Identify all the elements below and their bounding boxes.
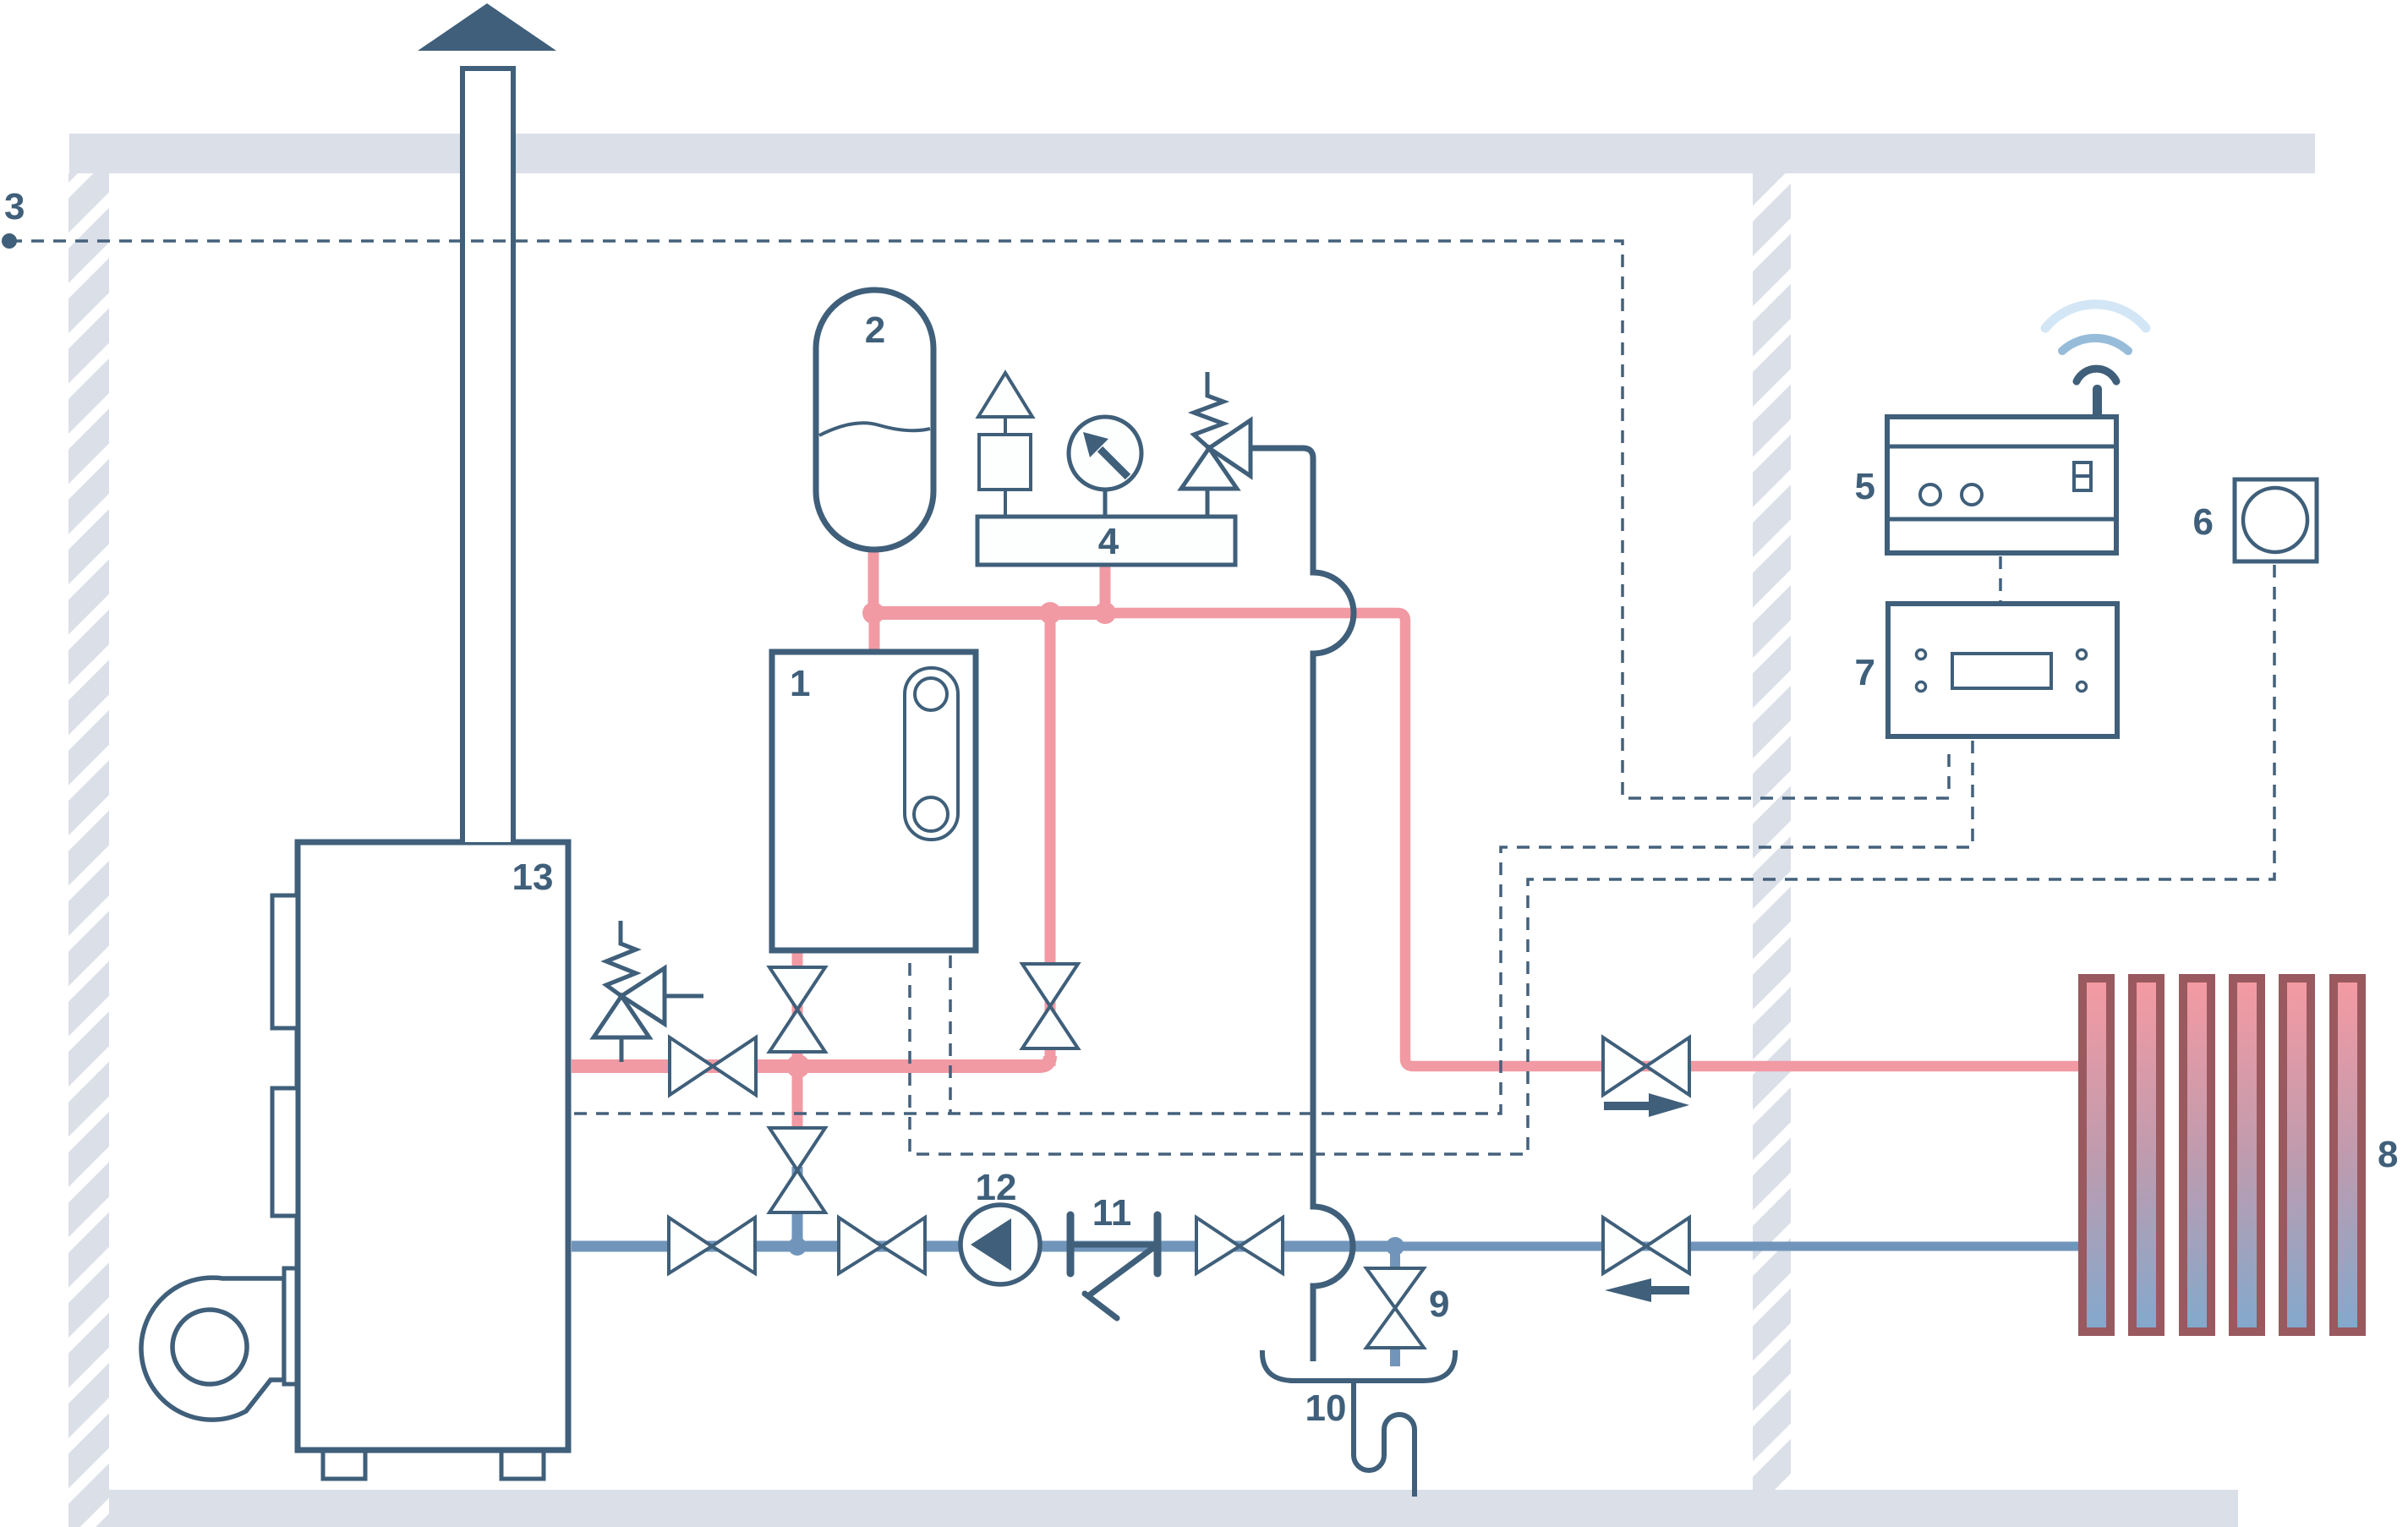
pipe: bypass riser x1242 [1045, 613, 1056, 1066]
wifi antenna [2093, 385, 2102, 419]
svg-text:1: 1 [790, 663, 810, 704]
partition wall [1753, 173, 1791, 1490]
ceiling [69, 134, 2315, 173]
svg-text:9: 9 [1429, 1283, 1449, 1325]
node: junction vessel [862, 602, 884, 624]
pipe: boiler1 bottom drop [792, 952, 803, 1066]
floor [109, 1490, 2238, 1527]
outdoor sensor 3 [2, 233, 17, 249]
svg-text:13: 13 [512, 857, 554, 898]
pipe: boiler1 top feed [869, 613, 880, 658]
pipe: boiler13 return run [572, 1241, 1397, 1252]
expansion vessel 2 [816, 290, 933, 550]
valve: radiator return [1603, 1218, 1689, 1273]
node: junction manifold [1094, 602, 1116, 624]
thermostat 7 [1888, 604, 2117, 736]
svg-text:6: 6 [2193, 501, 2214, 543]
controller 5 [1887, 417, 2116, 553]
overflow pipe from safety valve to funnel [1251, 448, 1354, 1361]
valve: return 2 [839, 1218, 925, 1273]
svg-text:10: 10 [1305, 1387, 1347, 1429]
svg-text:11: 11 [1092, 1192, 1132, 1234]
funnel 10 [1262, 1350, 1455, 1381]
valve: boiler13 supply [670, 1037, 756, 1095]
wifi arcs [2077, 369, 2116, 381]
pipe: fill drop to valve [792, 1066, 803, 1165]
boiler 13 feet [323, 1450, 365, 1479]
pipe: expansion vessel stem [868, 548, 879, 613]
pipe: boiler13 supply run [572, 1056, 1050, 1066]
arrow: supply flow [1604, 1093, 1689, 1117]
boiler 13 [298, 842, 568, 1450]
svg-text:4: 4 [1098, 521, 1119, 562]
radiator 8 [2082, 978, 2361, 1332]
svg-text:8: 8 [2378, 1134, 2398, 1175]
pump 12 [960, 1205, 1040, 1284]
wire: room sensor 6 to boiler1 [910, 565, 2274, 1154]
check valve 11 [1070, 1215, 1157, 1318]
node: junction boiler1 drop [786, 1054, 810, 1078]
svg-text:2: 2 [865, 309, 885, 351]
left wall [68, 173, 109, 1527]
pipe: radiator supply run [1112, 613, 2082, 1066]
drain valve 9 [1366, 1268, 1424, 1348]
valve: fill line [769, 1128, 825, 1212]
drain trap [1354, 1382, 1415, 1497]
pipe: supply header y725 [873, 606, 1114, 620]
safety group manifold 4 [977, 517, 1235, 565]
valve: bypass riser [1022, 964, 1078, 1048]
air vent [978, 373, 1032, 517]
safety valve on manifold [1181, 372, 1251, 517]
pipe: manifold stem [1100, 561, 1111, 613]
pipe: radiator return run [1395, 1242, 2082, 1251]
valve: boiler1 drop [769, 967, 825, 1052]
node: junction drain [1386, 1237, 1404, 1256]
svg-text:5: 5 [1855, 466, 1875, 507]
chimney cap [418, 3, 556, 51]
boiler 13 blower [141, 1268, 297, 1420]
valve: radiator supply [1603, 1037, 1689, 1095]
room sensor 6 [2235, 479, 2317, 561]
relief valve at boiler 13 [594, 921, 703, 1062]
valve: return 3 [1196, 1218, 1283, 1273]
chimney [462, 68, 513, 842]
svg-text:7: 7 [1855, 652, 1875, 693]
boiler 13 doors [272, 895, 298, 1028]
pipe: fill valve to return [792, 1167, 803, 1246]
valve: return 1 [669, 1218, 755, 1273]
wire: outdoor sensor 3 to thermostat 7 [9, 241, 1949, 798]
wire: controller 5 to thermostat 7 [1999, 556, 2002, 602]
node: junction riser [1039, 602, 1061, 624]
electric boiler 1 [772, 652, 976, 950]
svg-text:3: 3 [4, 186, 25, 227]
pipe: drain below valve [1390, 1344, 1400, 1366]
arrow: return flow [1605, 1278, 1689, 1302]
wire: thermostat 7 to boilers [572, 741, 1973, 1114]
node: junction fill return [788, 1237, 807, 1256]
pipe: drain stub [1390, 1246, 1400, 1272]
svg-text:12: 12 [976, 1167, 1017, 1208]
pressure gauge [1069, 417, 1141, 517]
wire: branch to boiler1 [949, 955, 952, 1114]
